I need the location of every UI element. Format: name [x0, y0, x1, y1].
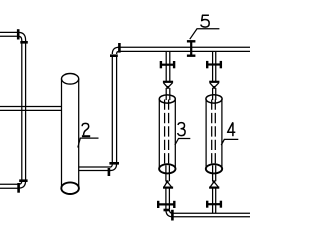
vessel tank 2 body — [62, 79, 79, 188]
wire stub into vessel 3 — [166, 88, 170, 100]
vessel 4 bottom ellipse — [206, 164, 222, 173]
wire branch pipe to vessel 4 — [213, 51, 216, 81]
flange pair on branch 3 — [161, 61, 174, 68]
flange below riser top elbow — [110, 54, 118, 57]
valve 5 top tick — [187, 40, 196, 42]
wire inlet pipe top-left — [0, 32, 18, 36]
tank 2 bottom ellipse — [61, 182, 79, 194]
wire below vessel 4 — [213, 165, 216, 213]
elbow into bottom header — [166, 210, 173, 217]
vessel 3 internal dip tube dashed — [165, 100, 169, 165]
nozzle funnel into vessel 4 — [209, 82, 219, 89]
flange pair on branch 4 — [207, 61, 221, 68]
vessel 4 body — [206, 99, 222, 169]
elbow riser bottom — [110, 164, 116, 171]
wire left vertical pipe — [22, 40, 26, 180]
wire left middle horizontal pipe to tank — [0, 107, 62, 111]
wire tank outlet to riser — [79, 167, 111, 171]
label 4 — [228, 122, 236, 136]
wire below funnel 3 — [166, 188, 170, 209]
flange above bottom elbow — [164, 209, 170, 212]
leader for label 4 — [221, 139, 238, 145]
flange pair below vessel 4 — [207, 201, 221, 208]
vessel 4 internal dip tube dashed — [212, 100, 216, 165]
valve 5 stem — [190, 41, 192, 56]
flange below top-left elbow — [20, 41, 28, 44]
flange right of bottom elbow — [171, 210, 174, 221]
flange left of bottom-left elbow — [17, 183, 20, 193]
wire outlet pipe bottom-left — [0, 184, 19, 188]
flange right of riser top elbow — [118, 43, 121, 53]
label 5 — [201, 15, 209, 27]
wire below vessel 3 — [166, 165, 170, 181]
leader for label 5 — [190, 29, 220, 39]
tank 2 top ellipse — [62, 74, 79, 85]
nozzle funnel into vessel 3 — [163, 82, 173, 89]
flange pair below vessel 3 — [158, 201, 174, 208]
vessel 3 top ellipse — [159, 95, 175, 103]
valve 5 bottom tick — [187, 55, 196, 57]
wire bottom header pipe — [173, 213, 251, 217]
flange left of riser bottom elbow — [108, 168, 111, 176]
flange above riser bottom elbow — [109, 162, 119, 165]
expander funnel below vessel 4 — [209, 180, 219, 187]
elbow top-left — [18, 32, 25, 40]
leader for label 3 — [175, 139, 190, 146]
elbow riser top — [112, 47, 119, 54]
wire stub into vessel 4 — [213, 88, 216, 100]
label 3 — [178, 123, 185, 136]
label 2 — [82, 123, 90, 136]
flange above bottom-left elbow — [19, 179, 27, 182]
vessel 4 top ellipse — [206, 95, 222, 103]
wire branch pipe to vessel 3 — [166, 51, 170, 81]
wire top header pipe — [119, 47, 250, 51]
wire riser vertical pipe — [112, 56, 116, 164]
elbow bottom-left — [19, 181, 26, 188]
flange on inlet pipe before elbow — [17, 29, 20, 39]
vessel 3 body — [159, 99, 175, 169]
leader for label 2 — [78, 138, 99, 147]
expander funnel below vessel 3 — [163, 180, 173, 187]
vessel 3 bottom ellipse — [159, 164, 175, 173]
